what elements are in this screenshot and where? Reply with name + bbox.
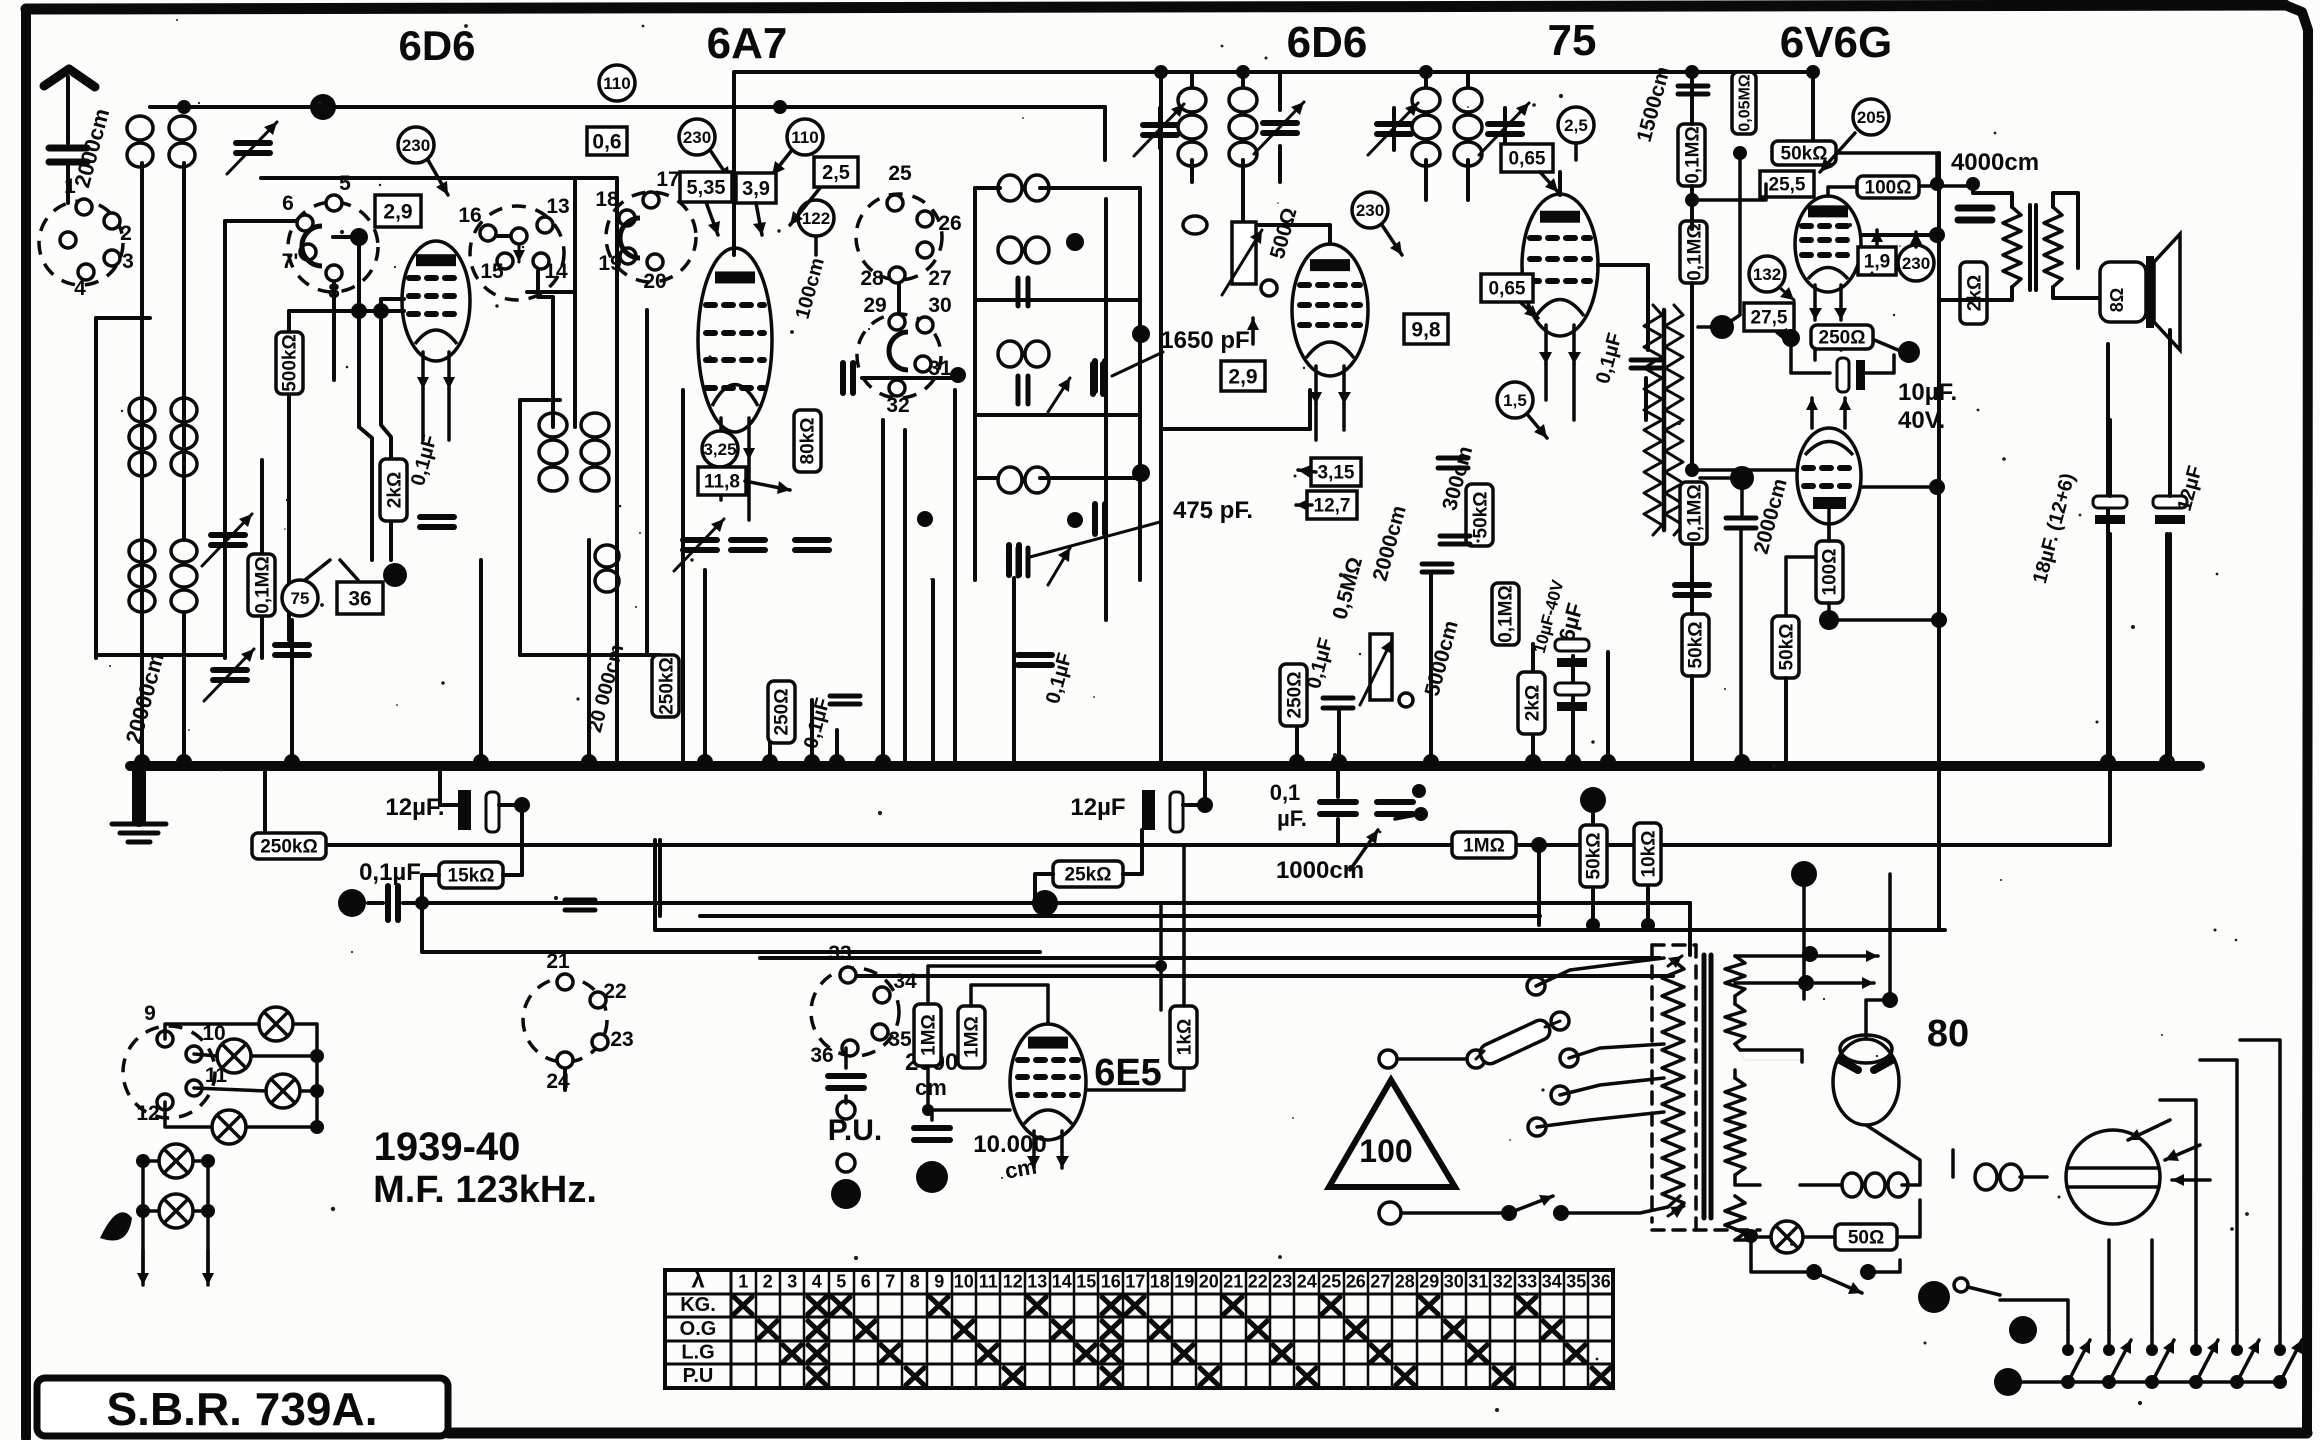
svg-text:22: 22 xyxy=(603,980,626,1003)
svg-text:6D6: 6D6 xyxy=(1287,18,1368,67)
svg-text:2kΩ: 2kΩ xyxy=(1964,275,1985,311)
svg-text:250Ω: 250Ω xyxy=(771,689,792,736)
svg-text:0,1MΩ: 0,1MΩ xyxy=(1682,126,1703,183)
svg-text:9,8: 9,8 xyxy=(1411,318,1441,341)
svg-text:0,6: 0,6 xyxy=(592,130,621,153)
svg-text:1MΩ: 1MΩ xyxy=(1463,836,1505,857)
svg-text:27: 27 xyxy=(1370,1272,1390,1292)
svg-text:cm: cm xyxy=(915,1075,947,1100)
svg-text:12µF: 12µF xyxy=(1070,794,1125,821)
svg-text:132: 132 xyxy=(1753,265,1781,284)
svg-text:17: 17 xyxy=(1125,1272,1145,1292)
svg-text:18: 18 xyxy=(1150,1272,1170,1292)
svg-text:250Ω: 250Ω xyxy=(1284,672,1305,719)
svg-text:3,15: 3,15 xyxy=(1318,463,1355,484)
svg-text:250kΩ: 250kΩ xyxy=(656,657,677,715)
svg-text:24: 24 xyxy=(546,1070,570,1093)
svg-text:µF.: µF. xyxy=(1277,806,1307,831)
svg-text:31: 31 xyxy=(1468,1272,1488,1292)
svg-text:6A7: 6A7 xyxy=(707,19,788,68)
svg-text:0,1MΩ: 0,1MΩ xyxy=(1684,223,1705,280)
svg-text:12,7: 12,7 xyxy=(1314,496,1351,517)
svg-text:14: 14 xyxy=(1052,1272,1072,1292)
svg-text:25: 25 xyxy=(1321,1272,1341,1292)
svg-text:50kΩ: 50kΩ xyxy=(1583,833,1604,880)
svg-text:205: 205 xyxy=(1857,108,1885,127)
svg-text:32: 32 xyxy=(1493,1272,1513,1292)
svg-text:0,1MΩ: 0,1MΩ xyxy=(252,556,273,613)
svg-text:100Ω: 100Ω xyxy=(1865,178,1912,199)
svg-text:25: 25 xyxy=(888,162,912,185)
svg-text:22: 22 xyxy=(1248,1272,1268,1292)
svg-text:50kΩ: 50kΩ xyxy=(1776,624,1797,671)
svg-text:19: 19 xyxy=(598,252,621,275)
svg-text:12: 12 xyxy=(1003,1272,1023,1292)
svg-text:25kΩ: 25kΩ xyxy=(1065,865,1112,886)
svg-text:1kΩ: 1kΩ xyxy=(1174,1019,1195,1055)
svg-text:1MΩ: 1MΩ xyxy=(961,1016,982,1058)
svg-text:2,5: 2,5 xyxy=(822,162,850,184)
svg-text:26: 26 xyxy=(1346,1272,1366,1292)
svg-text:33: 33 xyxy=(828,942,851,965)
svg-text:1MΩ: 1MΩ xyxy=(918,1014,939,1056)
svg-text:2kΩ: 2kΩ xyxy=(384,472,405,508)
svg-text:110: 110 xyxy=(791,128,818,147)
svg-text:0,65: 0,65 xyxy=(1509,149,1546,170)
svg-text:500kΩ: 500kΩ xyxy=(279,334,300,392)
svg-text:O.G: O.G xyxy=(680,1318,717,1340)
svg-text:0,1: 0,1 xyxy=(1270,780,1301,805)
svg-text:15kΩ: 15kΩ xyxy=(448,866,495,887)
svg-text:P.U.: P.U. xyxy=(828,1114,882,1147)
svg-text:23: 23 xyxy=(610,1028,633,1051)
svg-text:16: 16 xyxy=(1101,1272,1121,1292)
svg-text:475 pF.: 475 pF. xyxy=(1173,497,1253,524)
svg-text:0,05MΩ: 0,05MΩ xyxy=(1736,74,1753,131)
svg-text:36: 36 xyxy=(1591,1272,1611,1292)
svg-text:2,9: 2,9 xyxy=(383,200,412,223)
svg-text:4: 4 xyxy=(812,1272,822,1292)
svg-text:L.G: L.G xyxy=(681,1341,714,1363)
svg-text:KG.: KG. xyxy=(680,1294,716,1316)
svg-text:2: 2 xyxy=(120,222,132,245)
svg-text:50kΩ: 50kΩ xyxy=(1781,144,1828,165)
svg-text:100Ω: 100Ω xyxy=(1819,549,1840,596)
svg-text:24: 24 xyxy=(1297,1272,1317,1292)
svg-text:28: 28 xyxy=(1395,1272,1415,1292)
svg-text:8Ω: 8Ω xyxy=(2107,288,2127,312)
svg-text:25,5: 25,5 xyxy=(1769,175,1806,196)
svg-text:3,25: 3,25 xyxy=(703,440,736,459)
svg-text:31: 31 xyxy=(928,357,952,380)
svg-text:7': 7' xyxy=(282,250,299,273)
svg-text:50Ω: 50Ω xyxy=(1848,1228,1884,1249)
svg-text:14: 14 xyxy=(544,260,568,283)
svg-text:1,5: 1,5 xyxy=(1503,391,1527,410)
svg-text:λ: λ xyxy=(691,1267,704,1294)
svg-text:29: 29 xyxy=(863,294,886,317)
svg-text:75: 75 xyxy=(291,589,310,608)
svg-text:7: 7 xyxy=(885,1272,895,1292)
svg-text:20: 20 xyxy=(1199,1272,1219,1292)
svg-text:50kΩ: 50kΩ xyxy=(1470,492,1491,539)
svg-text:35: 35 xyxy=(888,1028,912,1051)
svg-text:0,1MΩ: 0,1MΩ xyxy=(1495,585,1516,642)
svg-text:27,5: 27,5 xyxy=(1751,308,1788,329)
svg-text:23: 23 xyxy=(1272,1272,1292,1292)
svg-text:21: 21 xyxy=(546,950,570,973)
svg-text:15: 15 xyxy=(1076,1272,1096,1292)
svg-text:10µF.: 10µF. xyxy=(1898,379,1957,406)
svg-text:1: 1 xyxy=(64,175,76,198)
svg-text:13: 13 xyxy=(546,195,569,218)
svg-text:36: 36 xyxy=(810,1044,833,1067)
svg-text:3: 3 xyxy=(122,250,134,273)
svg-text:11: 11 xyxy=(979,1272,998,1292)
svg-text:4: 4 xyxy=(74,277,86,300)
svg-text:21: 21 xyxy=(1223,1272,1243,1292)
svg-text:27: 27 xyxy=(928,267,951,290)
svg-text:16: 16 xyxy=(458,204,481,227)
svg-text:6D6: 6D6 xyxy=(398,22,475,69)
svg-text:10kΩ: 10kΩ xyxy=(1638,831,1659,878)
svg-text:20: 20 xyxy=(643,270,666,293)
svg-text:8: 8 xyxy=(328,280,340,303)
svg-text:250Ω: 250Ω xyxy=(1819,328,1866,349)
svg-text:230: 230 xyxy=(402,136,430,155)
svg-text:250kΩ: 250kΩ xyxy=(260,837,318,858)
svg-text:34: 34 xyxy=(1542,1272,1562,1292)
svg-text:122: 122 xyxy=(802,209,830,228)
svg-text:18: 18 xyxy=(595,188,619,211)
svg-text:6E5: 6E5 xyxy=(1094,1052,1162,1094)
svg-text:2,9: 2,9 xyxy=(1228,365,1257,388)
svg-text:10.000: 10.000 xyxy=(973,1131,1046,1158)
svg-text:5: 5 xyxy=(339,172,351,195)
svg-text:100: 100 xyxy=(1359,1133,1412,1169)
svg-text:34: 34 xyxy=(893,970,917,993)
svg-text:6: 6 xyxy=(861,1272,871,1292)
svg-text:1: 1 xyxy=(738,1272,748,1292)
svg-text:28: 28 xyxy=(860,267,884,290)
svg-text:2,5: 2,5 xyxy=(1564,116,1588,135)
svg-text:M.F. 123kHz.: M.F. 123kHz. xyxy=(373,1169,597,1211)
svg-text:2kΩ: 2kΩ xyxy=(1522,685,1543,721)
svg-text:36: 36 xyxy=(348,587,371,610)
svg-text:S.B.R. 739A.: S.B.R. 739A. xyxy=(107,1383,378,1435)
svg-text:15: 15 xyxy=(480,260,504,283)
svg-text:29: 29 xyxy=(1419,1272,1439,1292)
svg-text:1939-40: 1939-40 xyxy=(374,1125,521,1169)
svg-text:10: 10 xyxy=(954,1272,974,1292)
svg-text:8: 8 xyxy=(910,1272,920,1292)
svg-text:13: 13 xyxy=(1027,1272,1047,1292)
svg-text:32: 32 xyxy=(886,394,909,417)
svg-text:40V.: 40V. xyxy=(1898,407,1945,434)
svg-text:1650 pF: 1650 pF xyxy=(1160,327,1249,354)
svg-text:0,1µF: 0,1µF xyxy=(359,859,421,886)
svg-text:1000cm: 1000cm xyxy=(1276,857,1364,884)
svg-text:12: 12 xyxy=(136,1102,159,1125)
svg-text:6: 6 xyxy=(282,192,294,215)
svg-text:50kΩ: 50kΩ xyxy=(1685,622,1706,669)
svg-text:P.U: P.U xyxy=(683,1365,714,1387)
svg-text:110: 110 xyxy=(603,74,630,93)
svg-text:12µF.: 12µF. xyxy=(385,794,444,821)
svg-text:80kΩ: 80kΩ xyxy=(797,418,818,465)
svg-text:5: 5 xyxy=(836,1272,846,1292)
svg-text:9: 9 xyxy=(144,1002,156,1025)
svg-text:3: 3 xyxy=(787,1272,797,1292)
svg-text:230: 230 xyxy=(1902,254,1930,273)
svg-text:9: 9 xyxy=(934,1272,944,1292)
svg-text:30: 30 xyxy=(928,294,951,317)
svg-text:2: 2 xyxy=(763,1272,773,1292)
svg-text:30: 30 xyxy=(1444,1272,1464,1292)
svg-text:230: 230 xyxy=(683,128,711,147)
svg-text:35: 35 xyxy=(1566,1272,1586,1292)
svg-text:3,9: 3,9 xyxy=(742,178,770,200)
svg-text:80: 80 xyxy=(1927,1013,1969,1055)
svg-text:5,35: 5,35 xyxy=(687,177,726,199)
svg-text:17: 17 xyxy=(656,168,679,191)
svg-text:0,1MΩ: 0,1MΩ xyxy=(1684,484,1705,541)
svg-text:6V6G: 6V6G xyxy=(1780,18,1893,67)
svg-text:1,9: 1,9 xyxy=(1864,252,1890,273)
svg-text:4000cm: 4000cm xyxy=(1951,149,2039,176)
svg-text:26: 26 xyxy=(938,212,961,235)
svg-text:230: 230 xyxy=(1356,201,1384,220)
svg-text:19: 19 xyxy=(1174,1272,1194,1292)
svg-text:33: 33 xyxy=(1517,1272,1537,1292)
svg-text:75: 75 xyxy=(1548,16,1597,65)
svg-text:11,8: 11,8 xyxy=(704,472,740,493)
svg-text:0,65: 0,65 xyxy=(1489,279,1526,300)
